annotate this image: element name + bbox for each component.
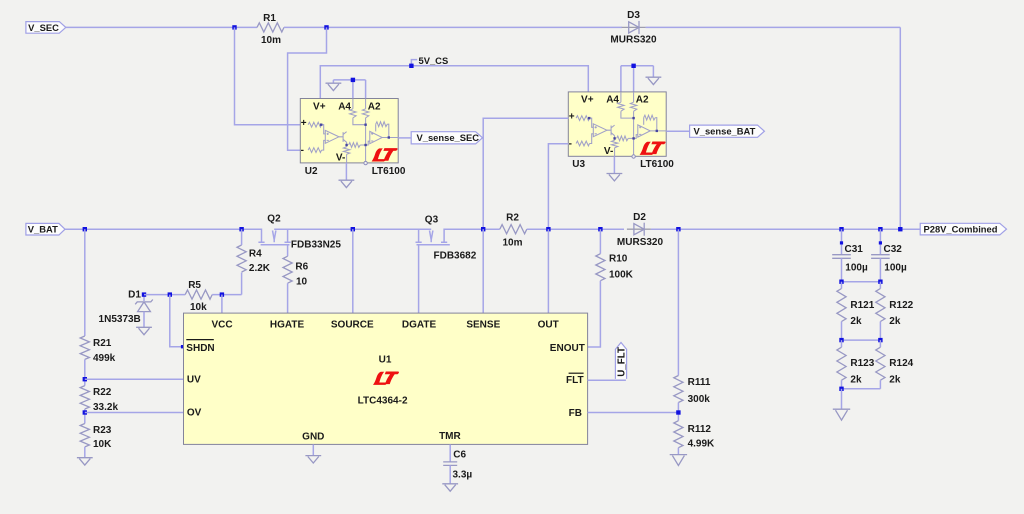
svg-text:UV: UV	[187, 375, 201, 386]
svg-text:1N5373B: 1N5373B	[99, 314, 141, 325]
svg-text:5V_CS: 5V_CS	[419, 55, 449, 66]
wire	[288, 27, 327, 150]
resistor R121	[837, 282, 875, 340]
svg-text:FLT: FLT	[566, 375, 584, 386]
svg-text:100µ: 100µ	[845, 262, 868, 273]
resistor R23	[80, 424, 112, 451]
wire	[677, 229, 679, 375]
wire OUT	[547, 229, 549, 313]
svg-text:R2: R2	[506, 213, 519, 224]
svg-text:2k: 2k	[889, 316, 901, 327]
wire HGATE	[287, 283, 289, 313]
wire row2	[842, 281, 881, 283]
wire SHDN	[170, 295, 183, 347]
svg-text:100µ: 100µ	[884, 262, 907, 273]
op-amp U2	[300, 99, 398, 165]
svg-text:2k: 2k	[889, 375, 901, 386]
wire	[646, 26, 901, 28]
wire	[398, 137, 411, 139]
wire	[333, 80, 365, 99]
svg-text:100K: 100K	[609, 269, 634, 280]
svg-text:10k: 10k	[190, 302, 207, 313]
node row3 junctions	[839, 338, 882, 342]
svg-text:MURS320: MURS320	[617, 237, 664, 248]
wire	[613, 156, 615, 173]
wire ENOUT	[588, 281, 601, 347]
ground	[326, 83, 342, 90]
svg-text:300k: 300k	[688, 394, 711, 405]
svg-text:MURS320: MURS320	[610, 35, 657, 46]
wire DGATE	[418, 245, 420, 313]
ground	[305, 456, 321, 463]
node 5V_CS	[411, 55, 448, 66]
svg-text:OUT: OUT	[538, 319, 559, 330]
svg-text:SHDN: SHDN	[186, 343, 214, 354]
node R1 right junction	[324, 25, 328, 29]
svg-text:VCC: VCC	[211, 319, 232, 330]
node U2 A4 junction	[351, 78, 355, 82]
wire	[621, 66, 654, 92]
wire	[241, 229, 243, 245]
wire main bus	[65, 228, 500, 230]
wire	[235, 27, 301, 124]
wire FB	[588, 412, 679, 414]
wire row4	[842, 388, 881, 390]
wire	[212, 294, 241, 296]
wire	[84, 447, 86, 458]
svg-text:SOURCE: SOURCE	[331, 319, 374, 330]
node top-left junction	[232, 25, 236, 29]
svg-text:LT6100: LT6100	[372, 166, 406, 177]
ground	[442, 484, 458, 491]
node VCC junction	[220, 292, 224, 296]
svg-text:R1: R1	[263, 13, 276, 24]
node row2 junctions	[839, 280, 882, 284]
node SHDN tap junction	[168, 292, 172, 296]
transistor Q2	[258, 214, 341, 251]
svg-text:499k: 499k	[93, 353, 116, 364]
svg-text:LT6100: LT6100	[640, 159, 674, 170]
wire V_BAT down	[84, 229, 86, 336]
svg-text:R21: R21	[93, 338, 112, 349]
ground	[136, 327, 152, 334]
wire VCC	[221, 295, 223, 314]
svg-text:4.99K: 4.99K	[688, 439, 715, 450]
svg-text:R10: R10	[609, 253, 628, 264]
resistor R122	[876, 282, 914, 340]
wire	[84, 409, 86, 424]
svg-text:V_SEC: V_SEC	[28, 22, 59, 33]
flag V_SEC	[26, 22, 66, 34]
svg-text:U_FLT: U_FLT	[617, 347, 628, 377]
resistor R2	[500, 213, 527, 249]
flag V_sense_SEC	[411, 132, 482, 144]
wire	[651, 228, 920, 230]
svg-text:R4: R4	[249, 249, 262, 260]
wire	[449, 465, 451, 483]
wire	[483, 118, 568, 229]
svg-text:FDB33N25: FDB33N25	[291, 240, 341, 251]
wire	[144, 294, 185, 296]
svg-text:HGATE: HGATE	[270, 319, 305, 330]
svg-text:U2: U2	[305, 166, 318, 177]
svg-text:10K: 10K	[93, 439, 112, 450]
diode D3	[610, 10, 657, 46]
svg-text:DGATE: DGATE	[402, 319, 437, 330]
svg-text:10m: 10m	[261, 35, 281, 46]
resistor R5	[185, 280, 212, 313]
svg-text:TMR: TMR	[439, 431, 461, 442]
wire	[527, 228, 624, 230]
ground	[670, 455, 687, 466]
svg-text:D1: D1	[128, 290, 141, 301]
transistor Q3	[416, 214, 477, 261]
wire OV	[85, 412, 184, 414]
IC U1 LTC4364-2	[184, 313, 588, 444]
wire	[287, 245, 289, 257]
svg-text:R5: R5	[188, 280, 201, 291]
ground	[339, 180, 355, 187]
wire	[548, 144, 568, 229]
svg-text:GND: GND	[302, 431, 324, 442]
svg-text:OV: OV	[187, 407, 202, 418]
svg-text:FB: FB	[569, 408, 582, 419]
svg-text:U3: U3	[572, 159, 585, 170]
resistor R124	[876, 340, 914, 389]
wire UV	[85, 378, 184, 380]
svg-text:ENOUT: ENOUT	[550, 343, 585, 354]
wire	[345, 163, 347, 180]
wire GND pin	[312, 444, 314, 455]
wire TMR	[449, 444, 451, 462]
svg-text:P28V_Combined: P28V_Combined	[924, 224, 998, 235]
svg-text:R124: R124	[889, 358, 913, 369]
svg-text:Q3: Q3	[425, 214, 439, 225]
svg-text:R112: R112	[688, 424, 712, 435]
flag V_sense_BAT	[690, 125, 765, 137]
svg-text:R111: R111	[688, 377, 711, 388]
resistor R6	[283, 256, 309, 287]
wire	[84, 359, 86, 385]
flag V_BAT	[26, 223, 65, 235]
svg-text:Q2: Q2	[267, 214, 281, 225]
svg-text:V_sense_SEC: V_sense_SEC	[417, 132, 480, 143]
wire SOURCE	[352, 229, 354, 313]
svg-text:R122: R122	[889, 300, 913, 311]
resistor R111	[674, 376, 711, 406]
ground	[77, 458, 93, 465]
svg-text:2.2K: 2.2K	[249, 263, 271, 274]
resistor R22	[80, 386, 118, 414]
wire	[841, 389, 843, 409]
svg-text:C6: C6	[453, 450, 466, 461]
wire SENSE	[482, 229, 484, 313]
wire junction 5V_CS	[409, 64, 413, 68]
ground	[646, 77, 662, 84]
svg-text:10: 10	[296, 276, 308, 287]
wire	[320, 66, 588, 99]
svg-text:R6: R6	[295, 261, 308, 272]
wire	[241, 273, 243, 295]
svg-text:V_sense_BAT: V_sense_BAT	[694, 126, 756, 137]
ground	[607, 174, 623, 181]
resistor R1	[257, 13, 284, 46]
svg-text:SENSE: SENSE	[466, 319, 500, 330]
resistor R112	[674, 421, 715, 450]
flag U_FLT	[588, 343, 628, 381]
diode D1 zener	[99, 290, 153, 328]
svg-text:3.3µ: 3.3µ	[453, 469, 473, 480]
wire	[284, 26, 622, 28]
svg-text:D3: D3	[627, 10, 640, 21]
svg-text:U1: U1	[379, 355, 392, 366]
svg-text:V_BAT: V_BAT	[28, 224, 58, 235]
svg-text:R22: R22	[93, 387, 112, 398]
svg-text:FDB3682: FDB3682	[434, 251, 477, 262]
svg-text:R123: R123	[850, 358, 874, 369]
svg-text:2k: 2k	[850, 375, 862, 386]
resistor R123	[837, 340, 875, 389]
node row4 junction	[839, 387, 843, 391]
capacitor C31	[832, 229, 868, 282]
node D1 junction	[142, 292, 146, 296]
node OV junction	[83, 410, 87, 414]
svg-text:33.2k: 33.2k	[93, 402, 118, 413]
svg-text:LTC4364-2: LTC4364-2	[358, 395, 408, 406]
svg-text:R121: R121	[850, 300, 874, 311]
op-amp U3	[568, 92, 666, 158]
node bus junctions	[83, 227, 903, 231]
wire	[677, 403, 679, 421]
wire	[677, 448, 679, 455]
wire	[66, 26, 257, 28]
node SHDN pin	[181, 345, 184, 348]
wire	[666, 130, 689, 132]
node U3 A2 junction	[631, 64, 635, 68]
node UV junction	[83, 377, 87, 381]
svg-text:R23: R23	[93, 425, 112, 436]
resistor R10	[596, 229, 634, 281]
ground	[833, 409, 850, 420]
capacitor C32	[871, 229, 907, 282]
svg-text:C31: C31	[845, 244, 864, 255]
resistor R21	[80, 336, 115, 364]
diode D2	[617, 212, 664, 248]
resistor R4	[237, 245, 271, 274]
svg-text:D2: D2	[633, 212, 646, 223]
wire	[899, 27, 901, 229]
wire row3	[842, 339, 881, 341]
svg-text:10m: 10m	[502, 238, 522, 249]
svg-text:C32: C32	[884, 244, 903, 255]
capacitor C6	[443, 450, 472, 481]
svg-text:2k: 2k	[850, 316, 862, 327]
flag P28V_Combined	[920, 223, 1006, 235]
node FB junction	[676, 410, 680, 414]
